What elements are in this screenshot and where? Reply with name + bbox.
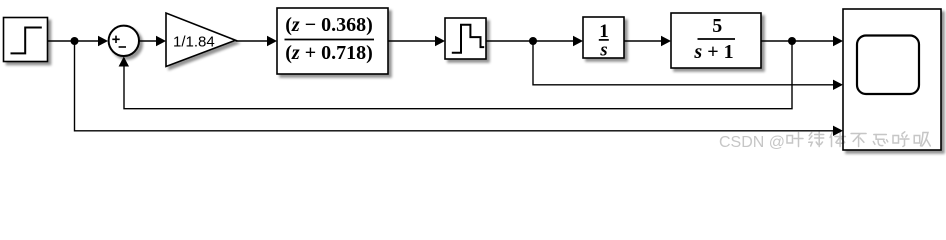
integrator block xyxy=(583,17,624,58)
node after tf2 xyxy=(788,37,796,45)
svg-text:CSDN @: CSDN @ xyxy=(719,134,785,151)
arrowhead into scope input1 xyxy=(833,36,843,46)
svg-text:s + 1: s + 1 xyxy=(693,41,733,63)
discrete transfer fcn block xyxy=(277,8,388,74)
scope screen xyxy=(857,36,919,95)
svg-text:1: 1 xyxy=(599,21,609,42)
svg-text:(z − 0.368): (z − 0.368) xyxy=(285,14,373,36)
tf1 fraction bar xyxy=(285,39,375,41)
wire integrator to tf2 xyxy=(624,40,669,42)
arrowhead into scope input2 xyxy=(833,80,843,90)
arrowhead into zoh xyxy=(435,36,445,46)
arrowhead into tf2 xyxy=(661,36,671,46)
sum minus sign xyxy=(119,46,126,48)
arrowhead up into sum bottom xyxy=(119,57,129,67)
scope block xyxy=(843,9,941,150)
wire gain to tf1 xyxy=(236,40,276,42)
node after zoh xyxy=(529,37,537,45)
arrowhead into scope input3 xyxy=(833,126,843,136)
svg-text:s: s xyxy=(599,40,607,60)
transfer fcn block 5/(s+1) xyxy=(671,13,761,68)
step icon xyxy=(11,28,42,54)
step source block xyxy=(4,18,48,62)
wire zoh to integrator xyxy=(486,40,581,42)
wire feedback tf2-output to sum xyxy=(124,41,792,109)
wire sum to gain xyxy=(139,40,164,42)
svg-text:1/1.84: 1/1.84 xyxy=(173,33,215,50)
wire step to sum xyxy=(48,40,107,42)
tf2 fraction bar xyxy=(698,38,736,40)
wire branch step to scope input3 xyxy=(75,41,842,131)
wire tf2 to scope xyxy=(761,40,841,42)
node after step xyxy=(71,37,79,45)
zoh staircase icon xyxy=(452,25,484,53)
arrowhead into tf1 xyxy=(267,36,277,46)
svg-text:5: 5 xyxy=(712,15,722,37)
arrowhead into integrator xyxy=(573,36,583,46)
arrowhead into gain xyxy=(156,36,166,46)
arrowhead into sum xyxy=(98,36,108,46)
watermark CSDN xyxy=(719,132,930,151)
integrator bar xyxy=(599,39,609,41)
wire branch zoh to scope input2 xyxy=(533,41,841,85)
svg-text:(z + 0.718): (z + 0.718) xyxy=(285,42,373,64)
zero-order hold block xyxy=(445,18,486,59)
gain block xyxy=(166,13,236,67)
sum block xyxy=(109,26,139,56)
sum plus sign xyxy=(112,36,119,43)
wire tf1 to zoh xyxy=(388,40,443,42)
